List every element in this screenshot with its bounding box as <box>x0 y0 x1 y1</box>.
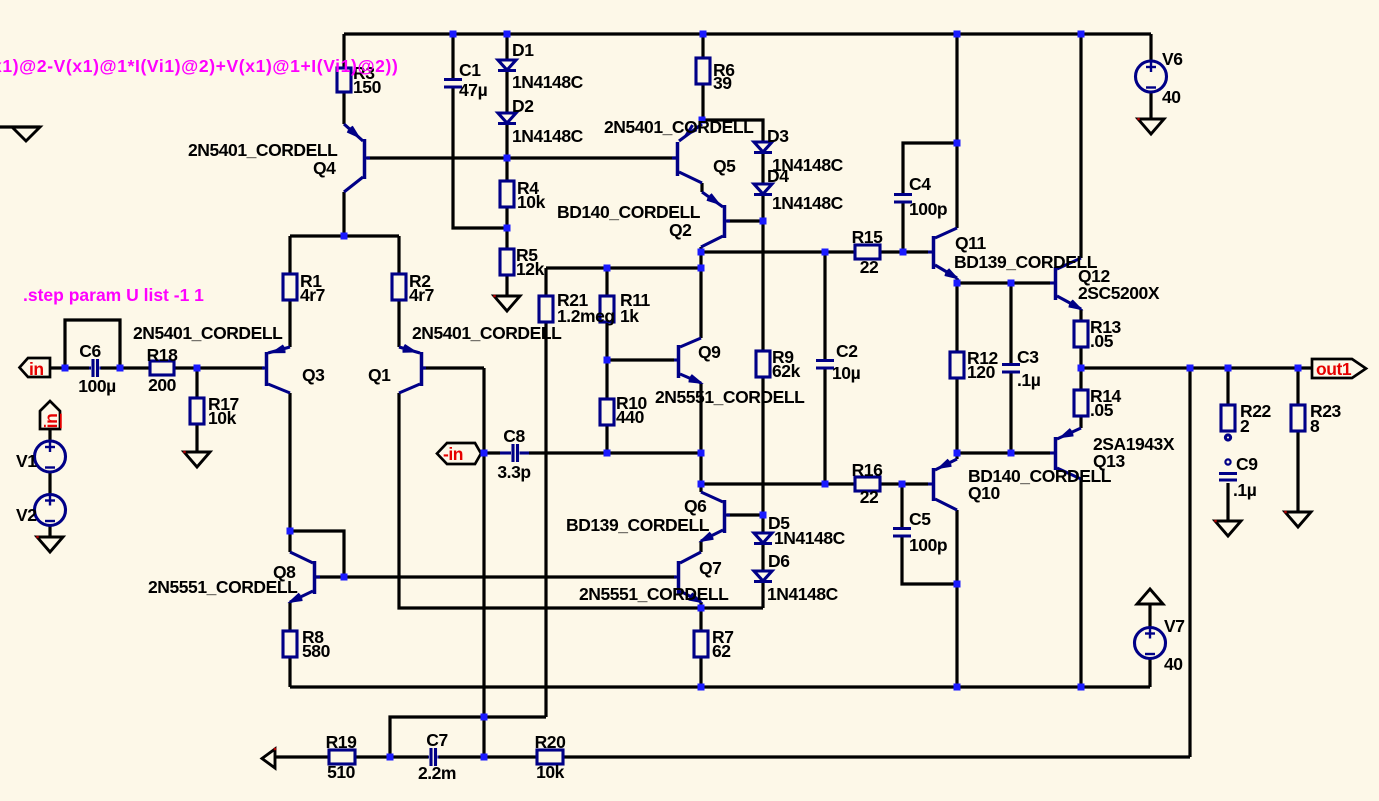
node bottom R19 C7 <box>387 754 394 761</box>
capacitor C9 <box>1219 459 1237 480</box>
wire V7 bottom to rail <box>1148 658 1151 687</box>
node Q6 base D5 R9 <box>760 512 767 519</box>
wire C4 bottom to R15 node <box>901 203 904 252</box>
svg-text:V7: V7 <box>1164 616 1185 636</box>
wire Q10 emitter stub <box>955 453 958 459</box>
svg-text:in: in <box>29 359 44 379</box>
resistor R3 <box>337 68 351 92</box>
wire C4 branch from vertical <box>903 143 957 193</box>
svg-text:D3: D3 <box>767 126 789 146</box>
svg-text:8: 8 <box>1310 416 1320 436</box>
node bias row Q9 collector <box>698 265 705 272</box>
resistor R10 <box>600 399 614 425</box>
resistor R19 <box>329 750 355 764</box>
wire Q2 base from bar to node <box>727 219 763 222</box>
svg-text:D2: D2 <box>512 96 534 116</box>
wire R6 top to rail <box>701 34 704 58</box>
wire R23 top lead <box>1296 368 1299 405</box>
ground below C9 <box>1215 521 1241 536</box>
wire Q10 base lead <box>902 482 928 485</box>
resistor R8 <box>283 631 297 657</box>
wire R21 top lead from bias row <box>544 268 547 296</box>
svg-text:out1: out1 <box>1316 359 1352 379</box>
svg-text:Q7: Q7 <box>699 558 721 578</box>
wire C5 bottom to Q10 collector line <box>902 537 957 584</box>
svg-text:2SC5200X: 2SC5200X <box>1078 283 1160 303</box>
wire C1 top to rail <box>451 34 454 78</box>
wire Q9 base wire <box>607 358 674 361</box>
svg-text:10µ: 10µ <box>832 363 861 383</box>
svg-text:1N4148C: 1N4148C <box>512 72 584 92</box>
wire feedback vertical <box>482 368 485 757</box>
node C8 Q9 emitter <box>698 450 705 457</box>
svg-text:1N4148C: 1N4148C <box>774 528 846 548</box>
capacitor C5 <box>893 529 911 537</box>
node output R23 <box>1295 365 1302 372</box>
svg-text:V6: V6 <box>1162 49 1183 69</box>
svg-text:C7: C7 <box>426 730 447 750</box>
wire V6 to ground <box>1149 92 1152 119</box>
wire R3 bottom to Q4 emitter <box>342 92 345 124</box>
wire D3 to D4 <box>761 153 764 184</box>
svg-text:R16: R16 <box>852 460 883 480</box>
wire driver output row to R16 <box>701 482 855 485</box>
ground flag left at R19 <box>262 749 275 768</box>
node negative rail R7 <box>698 684 705 691</box>
node C3 bottom <box>1008 450 1015 457</box>
wire negative rail <box>290 685 1150 688</box>
capacitor C2 <box>816 361 834 369</box>
wire R15 right to C4 node <box>880 250 903 253</box>
capacitor C8 <box>500 444 529 462</box>
wire in flag to V1 <box>48 429 51 442</box>
wire D5 top lead <box>761 515 764 533</box>
wire R17 top lead <box>195 368 198 398</box>
wire Q4 collector down <box>342 192 345 236</box>
svg-text:47µ: 47µ <box>459 80 488 100</box>
resistor R2 <box>392 274 406 300</box>
wire R16 right to Q10 base node <box>880 482 902 485</box>
wire mid bias row <box>546 266 701 269</box>
node rail junction at predriver <box>954 31 961 38</box>
wire top positive rail <box>344 32 1151 35</box>
wire C6 right to R18 <box>101 366 150 369</box>
wire Q9 emitter down to C8 row <box>699 383 702 453</box>
svg-text:BD139_CORDELL: BD139_CORDELL <box>954 252 1098 272</box>
resistor R23 <box>1291 405 1305 431</box>
resistor R5 <box>500 249 514 275</box>
resistor R13 <box>1074 321 1088 347</box>
transistor Q11 NPN <box>928 228 957 278</box>
node Q11 emitter row <box>954 280 961 287</box>
svg-text:Q13: Q13 <box>1093 451 1125 471</box>
wire C2 top to VAS row <box>823 252 826 359</box>
node rail junction at C1 <box>450 31 457 38</box>
wire V7 top to up ground flag <box>1148 604 1151 629</box>
voltage source V1 <box>35 441 66 472</box>
node R16 Q10 base C5 <box>899 481 906 488</box>
diode D2 <box>498 113 516 124</box>
wire Q11 emitter stub <box>955 278 958 283</box>
wire D5 to D6 <box>761 544 764 571</box>
svg-text:.1µ: .1µ <box>1233 480 1257 500</box>
wire C8 row <box>481 451 500 454</box>
svg-text:.1µ: .1µ <box>1017 370 1041 390</box>
port flag in above V1 <box>40 401 60 429</box>
node R18 R17 <box>194 365 201 372</box>
wire output feedback drop <box>1188 368 1191 757</box>
svg-text:39: 39 <box>713 73 732 93</box>
svg-text:-in: -in <box>443 444 463 464</box>
node C1 R4 R5 <box>504 225 511 232</box>
node Q5 emitter R6 D3 <box>699 117 706 124</box>
wire C9 bottom to ground <box>1226 483 1229 521</box>
wire V2 to ground <box>48 525 51 537</box>
wire R9 bottom to Q6 base node <box>761 377 764 515</box>
svg-text:200: 200 <box>148 375 177 395</box>
svg-text:C1: C1 <box>459 60 481 80</box>
svg-text:100µ: 100µ <box>78 376 116 396</box>
svg-text:R19: R19 <box>326 732 357 752</box>
wire Q5 node over to D3 top <box>703 120 763 142</box>
svg-text:510: 510 <box>327 762 356 782</box>
port -in <box>437 443 481 464</box>
svg-text:.05: .05 <box>1090 400 1114 420</box>
node output R13 R14 <box>1078 365 1085 372</box>
resistor R22 <box>1221 405 1235 431</box>
diode D1 <box>498 60 516 71</box>
svg-text:62: 62 <box>712 641 731 661</box>
wire Q5 collector to Q2 emitter <box>700 183 703 192</box>
wire Q11 base lead <box>903 250 928 253</box>
svg-text:D1: D1 <box>512 40 534 60</box>
wire top-left ground stub <box>0 125 40 128</box>
capacitor C1 <box>444 80 462 88</box>
resistor R18 <box>150 361 174 375</box>
wire R23 bottom to ground <box>1296 431 1299 512</box>
wire C2 bottom to R16 row <box>823 369 826 484</box>
node -in feedback <box>481 450 488 457</box>
svg-text:Q10: Q10 <box>968 483 1000 503</box>
transistor Q2 PNP mirrored <box>701 192 730 247</box>
wire R21 bottom long drop to feedback jog <box>544 322 547 717</box>
wire R6 bottom to Q5 emitter node <box>701 84 704 120</box>
svg-text:22: 22 <box>860 487 879 507</box>
transistor Q9 NPN <box>674 338 701 383</box>
node bottom C7 R20 feedback <box>481 754 488 761</box>
ground below V6 <box>1138 119 1164 134</box>
svg-text:C4: C4 <box>909 174 931 194</box>
voltage source V7 <box>1135 628 1166 659</box>
svg-text:2N5551_CORDELL: 2N5551_CORDELL <box>655 387 805 407</box>
svg-text:1.2meg: 1.2meg <box>557 306 615 326</box>
wire R14 top to output node <box>1079 368 1082 390</box>
node R15 C4 Q11 base <box>900 249 907 256</box>
wire C3 bottom lead <box>1009 373 1012 453</box>
wire VAS row to R15 <box>701 250 855 253</box>
wire Q13 collector to negative rail <box>1079 479 1082 687</box>
svg-text:BD140_CORDELL: BD140_CORDELL <box>557 202 701 222</box>
wire Q1 collector down and over to D6 bottom <box>399 393 763 608</box>
capacitor C3 <box>1002 365 1020 373</box>
node driver row Q6 collector <box>698 481 705 488</box>
resistor R6 <box>696 58 710 84</box>
svg-text:Q2: Q2 <box>669 220 692 240</box>
resistor R14 <box>1074 390 1088 416</box>
wire base node to R4 <box>505 158 508 181</box>
node C4 branch <box>954 140 961 147</box>
wire Q10 collector to negative rail <box>955 584 958 687</box>
wire Q10 collector down <box>955 510 958 584</box>
wire Q8 node over and down to Q8 base <box>290 531 344 577</box>
transistor Q10 PNP <box>928 459 957 510</box>
node input port C6 left <box>62 365 69 372</box>
wire R2 bottom to Q1 emitter <box>397 300 400 347</box>
wire R17 bottom to ground <box>195 424 198 452</box>
diode D5 <box>754 533 772 544</box>
wire R14 bottom to Q13 emitter <box>1079 416 1082 428</box>
resistor R21 <box>539 296 553 322</box>
svg-text:.05: .05 <box>1090 331 1114 351</box>
svg-text:Q5: Q5 <box>713 156 736 176</box>
svg-text:120: 120 <box>967 362 996 382</box>
wire predriver rail from top <box>955 34 958 228</box>
wire R10 bottom to C8 row <box>605 425 608 453</box>
svg-text:R15: R15 <box>852 227 883 247</box>
node Q3 Q8 collectors <box>287 528 294 535</box>
wire R12 bottom to Q13 base row <box>955 378 958 453</box>
wire R1 top lead <box>288 236 291 274</box>
wire R7 bottom to negative rail <box>699 657 702 687</box>
svg-text:40: 40 <box>1162 87 1181 107</box>
resistor R22 floating pin circle <box>1225 435 1230 440</box>
wire Q12 emitter to R13 <box>1079 309 1082 321</box>
ground top-left <box>12 127 40 141</box>
svg-text:in: in <box>41 414 61 429</box>
wire input port to C6 <box>50 366 89 369</box>
svg-text:1N4148C: 1N4148C <box>512 126 584 146</box>
wire Q7 emitter to D6 row <box>699 602 702 608</box>
wire D6 bottom drop <box>761 582 764 608</box>
node Q4 collector <box>341 233 348 240</box>
node C3 top <box>1008 280 1015 287</box>
transistor Q1 PNP mirrored <box>399 345 426 393</box>
wire C8 right to Q9 emitter node <box>529 451 701 454</box>
transistor Q4 PNP mirrored <box>344 124 370 192</box>
diode D4 <box>754 184 772 195</box>
wire Q4 Q5 base row <box>367 156 676 159</box>
svg-text:D6: D6 <box>768 551 790 571</box>
ground below R23 <box>1285 512 1311 527</box>
svg-text:62k: 62k <box>772 361 801 381</box>
wire R8 bottom to negative rail <box>288 657 291 687</box>
svg-text:C6: C6 <box>79 341 101 361</box>
wire Q11 emitter row to Q12 base <box>957 281 1050 284</box>
capacitor C4 <box>894 195 912 203</box>
diode D6 <box>754 571 772 582</box>
wire R18 right to Q3 base <box>174 366 264 369</box>
svg-text:Q3: Q3 <box>302 365 325 385</box>
node negative rail Q13 <box>1078 684 1085 691</box>
node C5 bottom <box>954 581 961 588</box>
node feedback jog <box>481 714 488 721</box>
svg-text:100p: 100p <box>909 199 947 219</box>
resistor R7 <box>694 631 708 657</box>
svg-text:Q9: Q9 <box>698 342 721 362</box>
wire R3 top to rail <box>342 34 345 68</box>
svg-text:C3: C3 <box>1017 347 1039 367</box>
ground below R5 <box>494 296 520 311</box>
svg-text:C8: C8 <box>503 426 525 446</box>
wire node row R1 R2 tops <box>290 234 399 237</box>
wire C8 row to Q6 collector row <box>699 453 702 484</box>
capacitor C6 <box>89 359 101 377</box>
node C8 R10 <box>604 450 611 457</box>
svg-text:1N4148C: 1N4148C <box>772 193 844 213</box>
wire R12 top lead <box>955 283 958 352</box>
node rail junction at R6 <box>700 31 707 38</box>
wire Q8 Q7 base row <box>344 575 676 578</box>
wire R22 top lead <box>1226 368 1229 405</box>
wire C5 top lead <box>900 484 903 527</box>
wire R13 bottom to output node <box>1079 347 1082 368</box>
svg-text:4r7: 4r7 <box>409 285 434 305</box>
transistor Q8 NPN mirrored <box>290 552 320 602</box>
resistor R12 <box>950 352 964 378</box>
svg-text:100p: 100p <box>909 535 947 555</box>
svg-text:4r7: 4r7 <box>300 285 325 305</box>
wire V6 drop from rail <box>1149 34 1152 61</box>
wire D1 to D2 <box>505 71 508 113</box>
svg-text:R18: R18 <box>147 345 178 365</box>
node C2 bottom R16 <box>822 481 829 488</box>
wire C7 right to feedback node <box>439 755 537 758</box>
node output R22 <box>1225 365 1232 372</box>
node Q2 base D4 <box>760 218 767 225</box>
wire R11 bottom to Q9 base node <box>605 322 608 360</box>
wire Q2 collector to VAS node <box>699 247 702 252</box>
wire Q1 base to feedback line <box>423 366 484 369</box>
resistor R4 <box>500 181 514 207</box>
resistor R9 <box>756 351 770 377</box>
node Q8 base <box>341 574 348 581</box>
svg-text:3.3p: 3.3p <box>497 462 530 482</box>
svg-text:C9: C9 <box>1236 454 1258 474</box>
svg-text:2N5401_CORDELL: 2N5401_CORDELL <box>188 140 338 160</box>
wire Q6 emitter to Q7 collector <box>699 541 702 552</box>
wire R20 right to output drop <box>563 755 1190 758</box>
wire Q13 base row <box>957 451 1050 454</box>
resistor R17 <box>190 398 204 424</box>
transistor Q5 PNP <box>672 124 702 183</box>
svg-text:C2: C2 <box>836 341 858 361</box>
wire D1 top to rail <box>505 34 508 60</box>
node rail junction at D1 <box>504 31 511 38</box>
svg-text:V2: V2 <box>16 505 37 525</box>
wire Q2 base node down to R9 <box>761 221 764 351</box>
node output feedback <box>1187 365 1194 372</box>
wire C6 bypass loop <box>65 320 120 368</box>
node C6 right <box>117 365 124 372</box>
resistor R15 <box>855 245 880 259</box>
resistor R1 <box>283 274 297 300</box>
wire Q8 base lead <box>316 575 344 578</box>
svg-text:10k: 10k <box>517 192 546 212</box>
node base row D2 R4 <box>504 155 511 162</box>
svg-text:Q1: Q1 <box>368 365 391 385</box>
capacitor C7 <box>428 748 439 766</box>
wire Q8 emitter to R8 <box>288 602 291 631</box>
svg-text:580: 580 <box>302 641 331 661</box>
resistor R20 <box>537 750 563 764</box>
transistor Q3 PNP <box>262 346 290 393</box>
transistor Q7 NPN <box>674 552 701 602</box>
ground below R17 <box>184 452 210 467</box>
svg-text:2N5551_CORDELL: 2N5551_CORDELL <box>579 584 729 604</box>
transistor Q12 NPN <box>1050 258 1081 309</box>
wire D4 to Q2 base node <box>761 195 764 221</box>
node VAS Q2 collector <box>698 249 705 256</box>
wire R11 top lead <box>605 268 608 296</box>
voltage source V2 <box>35 495 66 526</box>
ground flag up above V7 <box>1137 589 1163 604</box>
ground red dot marks <box>36 118 1286 750</box>
port out1 <box>1312 359 1366 378</box>
wire D2 to base row node <box>505 124 508 158</box>
svg-text:2N5401_CORDELL: 2N5401_CORDELL <box>604 117 754 137</box>
svg-text:Q4: Q4 <box>313 158 336 178</box>
wire Q6 collector stub <box>699 484 702 492</box>
svg-text:40: 40 <box>1164 654 1183 674</box>
svg-text:V1: V1 <box>16 451 37 471</box>
wire VAS node vertical <box>699 252 702 268</box>
svg-text:2N5551_CORDELL: 2N5551_CORDELL <box>148 577 298 597</box>
svg-text:10k: 10k <box>208 408 237 428</box>
svg-text:440: 440 <box>616 407 645 427</box>
svg-text:Q6: Q6 <box>684 496 707 516</box>
ground below V2 <box>37 537 63 552</box>
node Q7 emitter D6 R7 <box>698 605 705 612</box>
svg-text:Q11: Q11 <box>955 233 986 253</box>
node Q13 base row R12 <box>954 450 961 457</box>
transistor Q6 NPN mirrored <box>701 492 730 541</box>
svg-text:10k: 10k <box>536 762 565 782</box>
svg-text:150: 150 <box>353 77 382 97</box>
wire bottom feedback row <box>275 755 329 758</box>
wire R5 to ground <box>505 275 508 296</box>
node C2 top <box>822 249 829 256</box>
wire V1 to V2 <box>48 472 51 495</box>
wire R2 top lead <box>397 236 400 274</box>
wire Q3 collector down to Q8 node <box>288 393 291 531</box>
svg-text:x1)@2-V(x1)@1*I(Vi1)@2)+V(x1)@: x1)@2-V(x1)@1*I(Vi1)@2)+V(x1)@1+I(Vi1)@2… <box>0 56 398 76</box>
svg-text:1N4148C: 1N4148C <box>767 584 839 604</box>
svg-text:2N5401_CORDELL: 2N5401_CORDELL <box>412 323 562 343</box>
wire Q12 collector to top rail <box>1079 34 1082 258</box>
svg-text:.step param U list -1 1: .step param U list -1 1 <box>23 285 204 305</box>
node rail junction at Q12 collector <box>1078 31 1085 38</box>
svg-text:1k: 1k <box>620 306 639 326</box>
wire R10 top lead <box>605 360 608 399</box>
wire C3 top lead <box>1009 283 1012 363</box>
wire feedback jog up to R21 <box>390 717 546 757</box>
svg-text:D4: D4 <box>767 166 789 186</box>
wire R7 top lead <box>699 608 702 631</box>
node negative rail Q10 <box>954 684 961 691</box>
voltage source V6 <box>1136 61 1167 92</box>
node bias row R11 <box>604 265 611 272</box>
svg-text:2N5401_CORDELL: 2N5401_CORDELL <box>133 323 283 343</box>
